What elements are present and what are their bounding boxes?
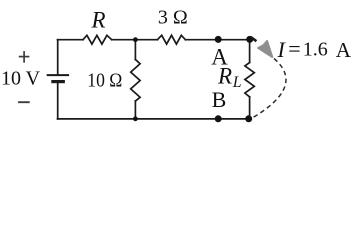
node A terminal dot (top) bbox=[215, 36, 222, 43]
resistor 10 ohm (vertical zigzag) bbox=[131, 60, 140, 102]
wire left side upper (to battery + plate) bbox=[57, 40, 59, 75]
dashed current path arc from arrow to node B bbox=[253, 59, 286, 118]
resistor R (zigzag) bbox=[83, 35, 112, 44]
wire right branch upper bbox=[249, 40, 251, 63]
svg-text:R: R bbox=[90, 8, 105, 33]
wire right branch lower bbox=[249, 97, 251, 119]
svg-text:10 Ω: 10 Ω bbox=[87, 69, 122, 91]
node junction dot at 10-ohm top bbox=[133, 37, 138, 42]
resistor 3 ohm (zigzag) bbox=[157, 35, 185, 44]
svg-text:A: A bbox=[336, 38, 352, 62]
svg-text:1.6: 1.6 bbox=[303, 39, 328, 61]
wire bottom rail bbox=[58, 118, 249, 120]
battery E short negative plate bbox=[53, 80, 63, 83]
svg-text:3 Ω: 3 Ω bbox=[158, 7, 188, 29]
wire top rail segment left (battery to R) bbox=[58, 39, 84, 41]
label plus sign of source bbox=[19, 51, 30, 63]
node junction dot at 10-ohm bottom bbox=[133, 116, 138, 121]
current arrow shaft from top-right node bbox=[251, 37, 257, 41]
svg-text:RL: RL bbox=[217, 63, 241, 91]
svg-text:10 V: 10 V bbox=[1, 68, 41, 90]
current arrow head (gray) bbox=[258, 41, 272, 57]
resistor RL (vertical zigzag) bbox=[245, 63, 254, 97]
label minus sign of source bbox=[18, 101, 30, 103]
battery E long positive plate bbox=[48, 74, 68, 76]
svg-text:I: I bbox=[277, 37, 287, 62]
wire top rail segment middle (R to 3-ohm) bbox=[112, 39, 158, 41]
node B terminal dot (bottom) bbox=[215, 115, 222, 122]
svg-text:=: = bbox=[288, 36, 300, 61]
wire middle branch upper bbox=[134, 40, 136, 60]
wire left side lower (battery - plate to bottom rail) bbox=[57, 82, 59, 119]
node dot top-right (RL top) bbox=[246, 36, 253, 43]
svg-text:B: B bbox=[212, 87, 227, 112]
node dot bottom-right (RL bottom) bbox=[245, 115, 252, 122]
wire top rail segment right (3-ohm to node) bbox=[185, 39, 249, 41]
wire middle branch lower bbox=[134, 101, 136, 119]
